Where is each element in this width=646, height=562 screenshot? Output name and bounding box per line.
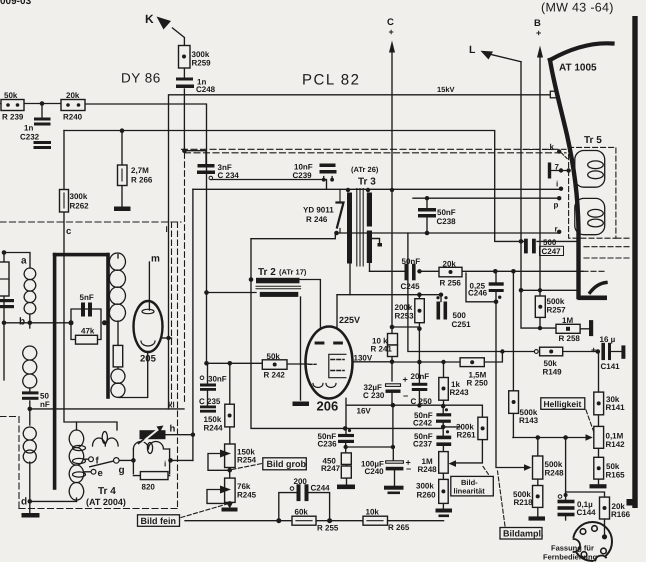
wire Tr2 top bbox=[251, 233, 335, 239]
svg-text:m: m bbox=[151, 254, 160, 265]
Tr5 winding upper bbox=[575, 151, 605, 188]
Tr4 inner coil bbox=[93, 432, 119, 447]
wire y428 line B bbox=[345, 427, 460, 429]
dashed heater ext right bbox=[583, 238, 630, 271]
wire R261 bottom to arrow bbox=[453, 440, 482, 463]
wire g to 820 loop bbox=[119, 459, 133, 461]
svg-text:20k: 20k bbox=[66, 91, 80, 100]
capacitor C240 bbox=[386, 461, 404, 471]
svg-text:206: 206 bbox=[317, 399, 339, 414]
svg-text:C247: C247 bbox=[542, 247, 562, 256]
wire K arrow stem bbox=[173, 28, 185, 46]
svg-text:C144: C144 bbox=[577, 508, 597, 517]
terminal o C234 bbox=[209, 176, 213, 180]
right edge hook bbox=[627, 499, 634, 506]
Tr5 winding lower bbox=[575, 198, 605, 234]
wire C240 col bbox=[393, 447, 394, 486]
wire L arrow stem bbox=[491, 55, 521, 62]
wire R149 line bbox=[408, 233, 599, 352]
svg-text:Bild fein: Bild fein bbox=[141, 516, 177, 526]
wire left edge component bbox=[3, 253, 5, 381]
svg-text:R 250: R 250 bbox=[467, 379, 489, 388]
wire Tr2 w2 left to bus bbox=[207, 292, 257, 294]
label box Bild grob bbox=[263, 458, 307, 470]
left edge resistor bbox=[0, 262, 9, 296]
resistor R256 bbox=[439, 267, 462, 277]
wire tube205 cathode from chain bbox=[118, 321, 148, 398]
svg-text:300k: 300k bbox=[416, 482, 434, 491]
wire 130V line bbox=[353, 361, 393, 363]
svg-text:130V: 130V bbox=[354, 354, 373, 363]
coil yoke right lower bbox=[111, 369, 125, 397]
svg-text:R260: R260 bbox=[417, 491, 437, 500]
svg-text:C246: C246 bbox=[468, 289, 488, 298]
svg-text:d: d bbox=[21, 497, 27, 508]
terminal o C235 bbox=[200, 376, 204, 380]
svg-text:+: + bbox=[389, 27, 394, 37]
wire C144 hang bbox=[565, 438, 567, 500]
svg-text:C232: C232 bbox=[20, 133, 40, 142]
wire 820 loop sides bbox=[133, 449, 169, 476]
wire C230 bottom bbox=[391, 393, 393, 406]
capacitor C141 bbox=[601, 343, 611, 360]
wire 15kV line bbox=[169, 95, 551, 409]
Tr4 outer coil bbox=[69, 430, 83, 500]
ground R260 bbox=[436, 509, 453, 518]
svg-text:Tr 5: Tr 5 bbox=[584, 135, 602, 146]
arrow into R248 bbox=[449, 460, 457, 467]
svg-text:h: h bbox=[170, 424, 176, 435]
resistor R242 bbox=[262, 360, 287, 370]
svg-text:C237: C237 bbox=[413, 440, 433, 449]
svg-text:Bild grob: Bild grob bbox=[267, 459, 307, 469]
capacitor 5nF bbox=[81, 303, 92, 317]
coil b bbox=[23, 346, 37, 388]
svg-text:R253: R253 bbox=[395, 312, 415, 321]
resistor R239 bbox=[1, 100, 24, 111]
L arrow head bbox=[481, 51, 494, 60]
capacitor 50nF yoke bbox=[22, 391, 39, 399]
svg-text:C236: C236 bbox=[318, 440, 338, 449]
wire R248 R218 column bbox=[537, 479, 539, 516]
wire R240 to vertical bus bbox=[85, 104, 207, 363]
svg-text:R261: R261 bbox=[457, 431, 477, 440]
C247 label box bbox=[540, 246, 564, 255]
resistor R259 bbox=[179, 46, 191, 69]
svg-text:R166: R166 bbox=[611, 510, 631, 519]
wire C238 hang bbox=[426, 198, 428, 233]
label box Bild-linearitaet bbox=[451, 476, 494, 496]
wire C144 bottom stub bbox=[565, 516, 567, 520]
wire y447 link bbox=[346, 446, 393, 448]
transformer Tr2 windings bbox=[256, 278, 301, 297]
capacitor C232 bbox=[34, 118, 52, 150]
svg-text:C 230: C 230 bbox=[363, 391, 385, 400]
svg-text:a: a bbox=[21, 256, 27, 267]
wire coil a to b bbox=[29, 314, 31, 328]
svg-text:R 256: R 256 bbox=[440, 279, 462, 288]
right edge bar bbox=[632, 16, 637, 508]
DASHED LINES bbox=[0, 147, 630, 526]
resistor R250 bbox=[460, 358, 484, 367]
svg-text:C 234: C 234 bbox=[218, 171, 240, 180]
wire C248 down bbox=[183, 89, 185, 151]
capacitor C238 bbox=[418, 208, 436, 218]
AT1005 hook bbox=[590, 283, 606, 293]
wire L line bbox=[521, 62, 556, 328]
resistor R261 bbox=[478, 417, 488, 439]
ground C240 bbox=[384, 486, 404, 494]
svg-text:Tr 3: Tr 3 bbox=[358, 177, 376, 188]
wire top horizontal y130 bbox=[64, 131, 524, 242]
tube 205 bbox=[134, 301, 163, 352]
svg-text:225V: 225V bbox=[339, 315, 360, 325]
svg-text:(AT 2004): (AT 2004) bbox=[86, 497, 126, 507]
wire R266 hang bbox=[121, 131, 123, 207]
wire C247 left feed dots bbox=[520, 240, 522, 242]
wire tr4 outer coil top bbox=[76, 422, 78, 501]
potentiometer R254 bbox=[220, 444, 235, 468]
wire Tr3 right bottom heater bbox=[369, 263, 371, 271]
wire B line bbox=[539, 57, 541, 290]
svg-text:Tr 2: Tr 2 bbox=[258, 267, 276, 278]
socket Fernbedienung bbox=[563, 522, 612, 562]
dashed bottom line bbox=[19, 508, 178, 510]
svg-text:(ATr 26): (ATr 26) bbox=[351, 165, 379, 174]
svg-text:500: 500 bbox=[543, 238, 557, 247]
wire Tr3 left bottom to heater line bbox=[349, 264, 351, 295]
svg-text:−: − bbox=[403, 391, 408, 401]
svg-text:009-03: 009-03 bbox=[0, 0, 32, 7]
wire C244 R255 loop bbox=[279, 493, 330, 521]
svg-text:R248: R248 bbox=[418, 465, 438, 474]
arrow into R248 500k bbox=[524, 464, 532, 471]
wire p line bbox=[413, 197, 559, 199]
capacitor C230 bbox=[386, 384, 401, 393]
svg-text:Helligkeit: Helligkeit bbox=[544, 399, 582, 409]
capacitor C239 bbox=[320, 164, 337, 174]
capacitor C237 bbox=[436, 430, 451, 446]
capacitor C245 bbox=[405, 264, 416, 281]
wire R254 wiper loop bbox=[208, 454, 230, 471]
resistor R143 bbox=[509, 391, 519, 414]
resistor R247 split bbox=[341, 453, 351, 478]
svg-text:C248: C248 bbox=[196, 85, 216, 94]
dashed chassis line y222 bbox=[0, 221, 181, 223]
dashed vertical x177 bbox=[177, 222, 179, 509]
svg-text:C242: C242 bbox=[413, 419, 433, 428]
wire Tr2 w2 right to cathode line bbox=[300, 297, 302, 364]
dashed vertical x171 bbox=[171, 222, 173, 404]
svg-text:−: − bbox=[406, 464, 411, 474]
svg-text:AT 1005: AT 1005 bbox=[559, 63, 597, 74]
wire C239 bottom stubs bbox=[324, 177, 332, 180]
terminal o C144 bbox=[558, 495, 562, 499]
svg-text:R165: R165 bbox=[606, 471, 626, 480]
wire anode line y189 to Tr5 i bbox=[193, 188, 559, 190]
label box Bildampl bbox=[500, 528, 542, 540]
wire R241 chain bbox=[391, 327, 393, 381]
svg-text:R262: R262 bbox=[70, 202, 90, 211]
svg-text:Fernbedienung: Fernbedienung bbox=[543, 553, 598, 562]
dashed k to winding bbox=[562, 153, 568, 159]
wire R253 link bbox=[392, 326, 419, 328]
svg-text:R142: R142 bbox=[606, 440, 626, 449]
potentiometer R245 bbox=[220, 478, 235, 502]
dashed k line bbox=[523, 149, 555, 151]
svg-text:DY 86: DY 86 bbox=[121, 71, 161, 86]
svg-text:Tr 4: Tr 4 bbox=[98, 486, 116, 497]
node g bbox=[114, 458, 120, 464]
wire R242 line bbox=[207, 362, 309, 365]
svg-text:60k: 60k bbox=[295, 508, 309, 517]
hatched arrow box h bbox=[139, 426, 166, 444]
terminal o R149 bbox=[534, 350, 538, 354]
wire R253 column bbox=[418, 295, 420, 362]
svg-text:820: 820 bbox=[142, 483, 156, 492]
R258 end bar bbox=[589, 320, 593, 336]
820 loop coil bbox=[133, 442, 169, 454]
svg-text:p: p bbox=[554, 201, 559, 210]
svg-text:+: + bbox=[591, 345, 596, 355]
svg-text:C 250: C 250 bbox=[411, 397, 433, 406]
svg-text:200: 200 bbox=[294, 477, 308, 486]
wire R248 500k top bbox=[537, 438, 539, 457]
ground 206 cathode bbox=[293, 402, 310, 407]
svg-text:20k: 20k bbox=[443, 260, 457, 269]
svg-text:R248: R248 bbox=[545, 469, 565, 478]
svg-text:R 242: R 242 bbox=[264, 371, 286, 380]
svg-text:205: 205 bbox=[140, 354, 157, 365]
capacitor C246 bbox=[489, 282, 504, 299]
wire R239-R240 bbox=[0, 103, 61, 105]
wire tube205 right stub bbox=[163, 337, 172, 339]
svg-text:R257: R257 bbox=[547, 306, 567, 315]
dashed Helligkeit pointer bbox=[586, 410, 595, 434]
wire RC loop 5nF 47k bbox=[71, 309, 101, 340]
wire R257 hang bbox=[539, 290, 541, 328]
arrow into R142 bbox=[586, 434, 593, 441]
wire C234-C239 link y179 bbox=[211, 180, 327, 190]
svg-text:R218: R218 bbox=[514, 498, 534, 507]
svg-text:g: g bbox=[119, 465, 125, 476]
capacitor C244 bbox=[297, 484, 309, 501]
wire Tr2 w1 right to 206 grid bbox=[299, 280, 320, 328]
svg-text:50nF: 50nF bbox=[437, 208, 456, 217]
ground R165 bbox=[590, 484, 607, 488]
wire C246 column bbox=[496, 271, 529, 467]
svg-text:R247: R247 bbox=[321, 464, 341, 473]
resistor R149 bbox=[540, 347, 563, 356]
wire i line bbox=[171, 459, 193, 461]
wire switch arm g bbox=[90, 461, 114, 467]
svg-text:r: r bbox=[555, 225, 558, 234]
wire e stub bbox=[84, 471, 92, 473]
capacitor C234 bbox=[197, 164, 215, 174]
resistor R244 bbox=[225, 404, 235, 427]
wire 225V stub into tube bbox=[336, 295, 338, 328]
wire R244 chain bbox=[229, 363, 231, 506]
wire 16V line bbox=[346, 398, 393, 434]
coil d bbox=[23, 427, 36, 463]
svg-text:R 258: R 258 bbox=[559, 334, 581, 343]
svg-text:k: k bbox=[550, 143, 555, 152]
wire R245 wiper loop bbox=[207, 490, 230, 504]
svg-text:YD 9011: YD 9011 bbox=[303, 206, 334, 215]
resistor R255 bbox=[292, 516, 316, 525]
svg-text:C141: C141 bbox=[601, 362, 621, 371]
Tr4 tap ovals bbox=[73, 445, 86, 477]
svg-text:K: K bbox=[145, 12, 154, 26]
svg-text:7: 7 bbox=[555, 163, 560, 172]
svg-text:(MW 43 -64): (MW 43 -64) bbox=[541, 1, 614, 15]
svg-text:R244: R244 bbox=[204, 424, 224, 433]
svg-text:30nF: 30nF bbox=[208, 375, 227, 384]
svg-text:C238: C238 bbox=[437, 217, 457, 226]
svg-text:16V: 16V bbox=[357, 407, 372, 416]
svg-text:10k: 10k bbox=[366, 508, 380, 517]
AT1005 lead bbox=[550, 43, 613, 297]
wire C232 hang bbox=[41, 104, 43, 118]
terminal o C244 bbox=[290, 487, 294, 491]
wire R259 to C248 bbox=[183, 68, 185, 77]
wire C line down bbox=[391, 52, 393, 327]
resistor R141 bbox=[594, 392, 604, 415]
ground d bbox=[22, 513, 40, 518]
capacitor C242 bbox=[436, 408, 451, 423]
capacitor C144 bbox=[558, 500, 575, 517]
svg-text:50k: 50k bbox=[267, 352, 281, 361]
ground R266 bbox=[114, 207, 131, 212]
wire 206 cathode ground drop bbox=[300, 364, 302, 400]
svg-text:C244: C244 bbox=[311, 484, 331, 493]
ground R218 bbox=[529, 516, 546, 520]
svg-text:R259: R259 bbox=[192, 59, 212, 68]
svg-text:1n: 1n bbox=[24, 124, 33, 133]
resistor yoke chain bbox=[113, 345, 123, 367]
svg-text:16 µ: 16 µ bbox=[600, 335, 616, 344]
svg-text:(ATr 17): (ATr 17) bbox=[279, 268, 307, 277]
wire R243 hang bbox=[443, 362, 445, 406]
resistor R262 bbox=[60, 190, 69, 213]
wire R166 column bbox=[566, 492, 605, 537]
wire C247 right bbox=[537, 240, 577, 242]
AT1005 bottom bar bbox=[578, 296, 608, 301]
svg-text:R243: R243 bbox=[450, 388, 470, 397]
wire R143 column bbox=[512, 271, 514, 437]
wire h line bbox=[165, 434, 193, 436]
wire Tr5 7 element bbox=[551, 170, 569, 172]
wire Tr2 left vertical bbox=[251, 239, 345, 429]
svg-text:R254: R254 bbox=[237, 456, 257, 465]
resistor 47k bbox=[76, 335, 98, 344]
tube 206 bbox=[306, 327, 353, 399]
resistor R241 split bbox=[388, 334, 398, 357]
svg-text:15kV: 15kV bbox=[437, 85, 455, 94]
svg-text:+: + bbox=[403, 375, 408, 385]
wire y408 line bbox=[30, 408, 184, 410]
resistor R260 bbox=[439, 479, 449, 503]
wire tube205 m line bbox=[148, 262, 150, 310]
wire heater line y271 bbox=[370, 270, 584, 272]
svg-text:L: L bbox=[469, 44, 476, 56]
yoke frame thick bbox=[53, 253, 110, 490]
wire R256 right branch down bbox=[466, 273, 496, 302]
svg-text:R 241: R 241 bbox=[371, 345, 393, 354]
svg-text:Fassung für: Fassung für bbox=[551, 544, 594, 553]
resistor R218 bbox=[533, 486, 543, 508]
resistor R248 1M bbox=[439, 452, 449, 474]
node e bbox=[91, 469, 96, 474]
svg-text:R141: R141 bbox=[606, 403, 626, 412]
transformer Tr3 windings bbox=[347, 189, 372, 267]
arrow R245 to ground bbox=[227, 503, 233, 509]
svg-text:e: e bbox=[98, 468, 103, 479]
svg-text:l: l bbox=[166, 225, 168, 234]
wire bottom main line bbox=[185, 520, 444, 522]
wire C234 feed bbox=[184, 151, 206, 164]
resistor R257 bbox=[535, 296, 545, 317]
svg-text:2,7M: 2,7M bbox=[131, 166, 149, 175]
wire C251 hang bbox=[440, 295, 442, 302]
resistor R142 bbox=[594, 426, 604, 448]
socket pin dot bbox=[602, 534, 607, 539]
coil a bbox=[24, 268, 36, 314]
capacitor C247 bbox=[524, 239, 536, 254]
svg-text:i: i bbox=[556, 180, 558, 189]
resistor R258 bbox=[556, 324, 580, 333]
VDR R246 bbox=[337, 189, 344, 233]
wire coil chain top bbox=[117, 255, 119, 259]
dashed Bild grob pointer bbox=[232, 464, 262, 470]
wire 50nF to d coil bbox=[29, 401, 31, 425]
svg-text:R240: R240 bbox=[63, 113, 83, 122]
resistor R248 500k bbox=[533, 456, 543, 479]
coil yoke right upper bbox=[109, 253, 125, 321]
wire anode bus down to i bbox=[192, 189, 194, 460]
label box Bild fein bbox=[138, 515, 180, 527]
resistor R266 bbox=[118, 165, 128, 186]
svg-text:linearität: linearität bbox=[454, 487, 486, 496]
dashed box top double bbox=[182, 149, 567, 153]
svg-text:C251: C251 bbox=[452, 320, 472, 329]
wire R141 R142 R165 column bbox=[598, 352, 600, 485]
dashed linearitaet pointer bbox=[483, 467, 490, 477]
svg-text:b: b bbox=[19, 317, 25, 328]
ground R245 bbox=[222, 508, 238, 512]
dashed Bildampl pointer bbox=[498, 471, 506, 526]
Tr3 tap hook bbox=[372, 239, 382, 247]
resistor R166 bbox=[600, 497, 610, 519]
capacitor C248 bbox=[176, 78, 194, 89]
svg-text:kl: kl bbox=[168, 401, 175, 410]
svg-text:+: + bbox=[536, 28, 541, 38]
svg-text:PCL 82: PCL 82 bbox=[302, 72, 360, 89]
wire C235 column bbox=[207, 363, 209, 405]
B line arrow bbox=[537, 46, 543, 58]
C141 end bar bbox=[621, 345, 625, 358]
svg-text:R245: R245 bbox=[237, 491, 257, 500]
resistor R165 bbox=[594, 457, 604, 479]
svg-text:47k: 47k bbox=[81, 327, 95, 336]
capacitor C251 bbox=[436, 296, 447, 319]
svg-text:R143: R143 bbox=[519, 416, 539, 425]
svg-text:C240: C240 bbox=[365, 467, 385, 476]
dashed Tr4 box left bbox=[0, 417, 19, 509]
resistor R265 bbox=[363, 516, 388, 525]
wire d node bbox=[30, 462, 77, 513]
arrow K bbox=[157, 17, 172, 30]
